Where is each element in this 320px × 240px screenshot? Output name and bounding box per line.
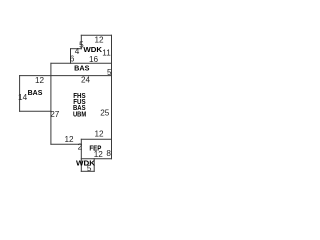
svg-text:2: 2	[78, 142, 83, 151]
svg-text:UBM: UBM	[73, 109, 86, 118]
wall: FEP left edge	[80, 139, 82, 171]
svg-text:12: 12	[94, 35, 104, 44]
svg-text:16: 16	[89, 55, 99, 64]
svg-text:8: 8	[106, 149, 111, 158]
svg-text:11: 11	[102, 49, 111, 58]
wall: BAS strip top edge	[51, 62, 112, 64]
svg-text:BAS: BAS	[28, 88, 43, 97]
svg-text:5: 5	[87, 164, 92, 173]
wall: right outer edge	[111, 35, 113, 158]
svg-text:24: 24	[81, 76, 91, 85]
svg-text:27: 27	[50, 110, 60, 119]
svg-text:12: 12	[94, 150, 104, 159]
wall: main block bottom-left edge	[51, 143, 81, 145]
svg-text:5: 5	[107, 68, 112, 77]
wall: main block top edge	[20, 75, 112, 77]
wall: FEP top edge	[81, 138, 111, 140]
wall: BAS wing left edge	[19, 76, 21, 112]
svg-text:4: 4	[75, 47, 80, 56]
svg-text:5: 5	[79, 40, 84, 49]
wall: WDK small box right edge	[93, 159, 95, 172]
svg-text:BAS: BAS	[74, 64, 89, 73]
svg-text:12: 12	[35, 76, 45, 85]
wall: WDK deck left edge	[80, 35, 82, 48]
wall: BAS wing bottom edge	[20, 110, 51, 112]
svg-text:14: 14	[18, 93, 28, 102]
wall: main block left edge	[50, 63, 52, 144]
wall: WDK deck top edge	[81, 34, 111, 36]
svg-text:WDK: WDK	[83, 45, 102, 54]
svg-text:WDK: WDK	[76, 158, 96, 167]
svg-text:6: 6	[70, 54, 75, 63]
wall: FEP bottom edge	[81, 158, 111, 160]
wall: WDK small box bottom edge	[81, 170, 94, 172]
wall: step top edge	[71, 48, 82, 50]
svg-text:12: 12	[64, 135, 74, 144]
wall: step left edge	[70, 49, 72, 64]
svg-text:25: 25	[100, 108, 110, 117]
svg-text:12: 12	[94, 129, 104, 138]
